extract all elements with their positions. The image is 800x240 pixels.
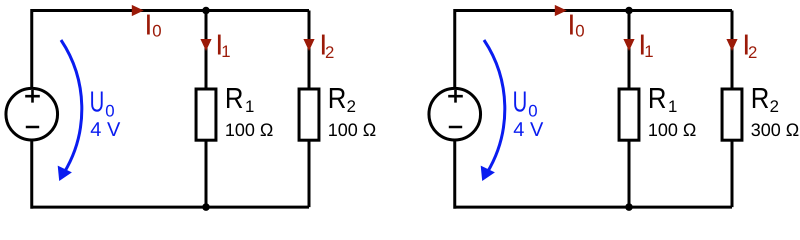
svg-text:100 Ω: 100 Ω — [648, 120, 697, 140]
svg-text:100 Ω: 100 Ω — [328, 120, 377, 140]
svg-text:R: R — [648, 83, 667, 115]
svg-text:300 Ω: 300 Ω — [751, 120, 800, 140]
svg-text:R: R — [328, 83, 347, 115]
svg-text:R: R — [225, 83, 244, 115]
svg-text:0: 0 — [105, 102, 114, 121]
svg-text:U: U — [513, 87, 528, 119]
svg-text:100 Ω: 100 Ω — [225, 120, 274, 140]
svg-text:0: 0 — [528, 102, 537, 121]
svg-text:2: 2 — [748, 43, 757, 62]
svg-text:1: 1 — [668, 97, 677, 116]
svg-text:1: 1 — [221, 42, 230, 61]
svg-text:2: 2 — [325, 43, 334, 62]
svg-text:U: U — [90, 87, 105, 119]
svg-text:1: 1 — [644, 42, 653, 61]
svg-text:I: I — [567, 9, 575, 41]
svg-text:2: 2 — [770, 97, 779, 116]
svg-text:2: 2 — [347, 97, 356, 116]
svg-text:1: 1 — [245, 97, 254, 116]
svg-text:I: I — [144, 9, 152, 41]
svg-text:0: 0 — [575, 22, 584, 41]
svg-text:R: R — [751, 83, 770, 115]
svg-text:0: 0 — [152, 22, 161, 41]
svg-text:4 V: 4 V — [90, 119, 121, 141]
svg-text:4 V: 4 V — [513, 119, 544, 141]
